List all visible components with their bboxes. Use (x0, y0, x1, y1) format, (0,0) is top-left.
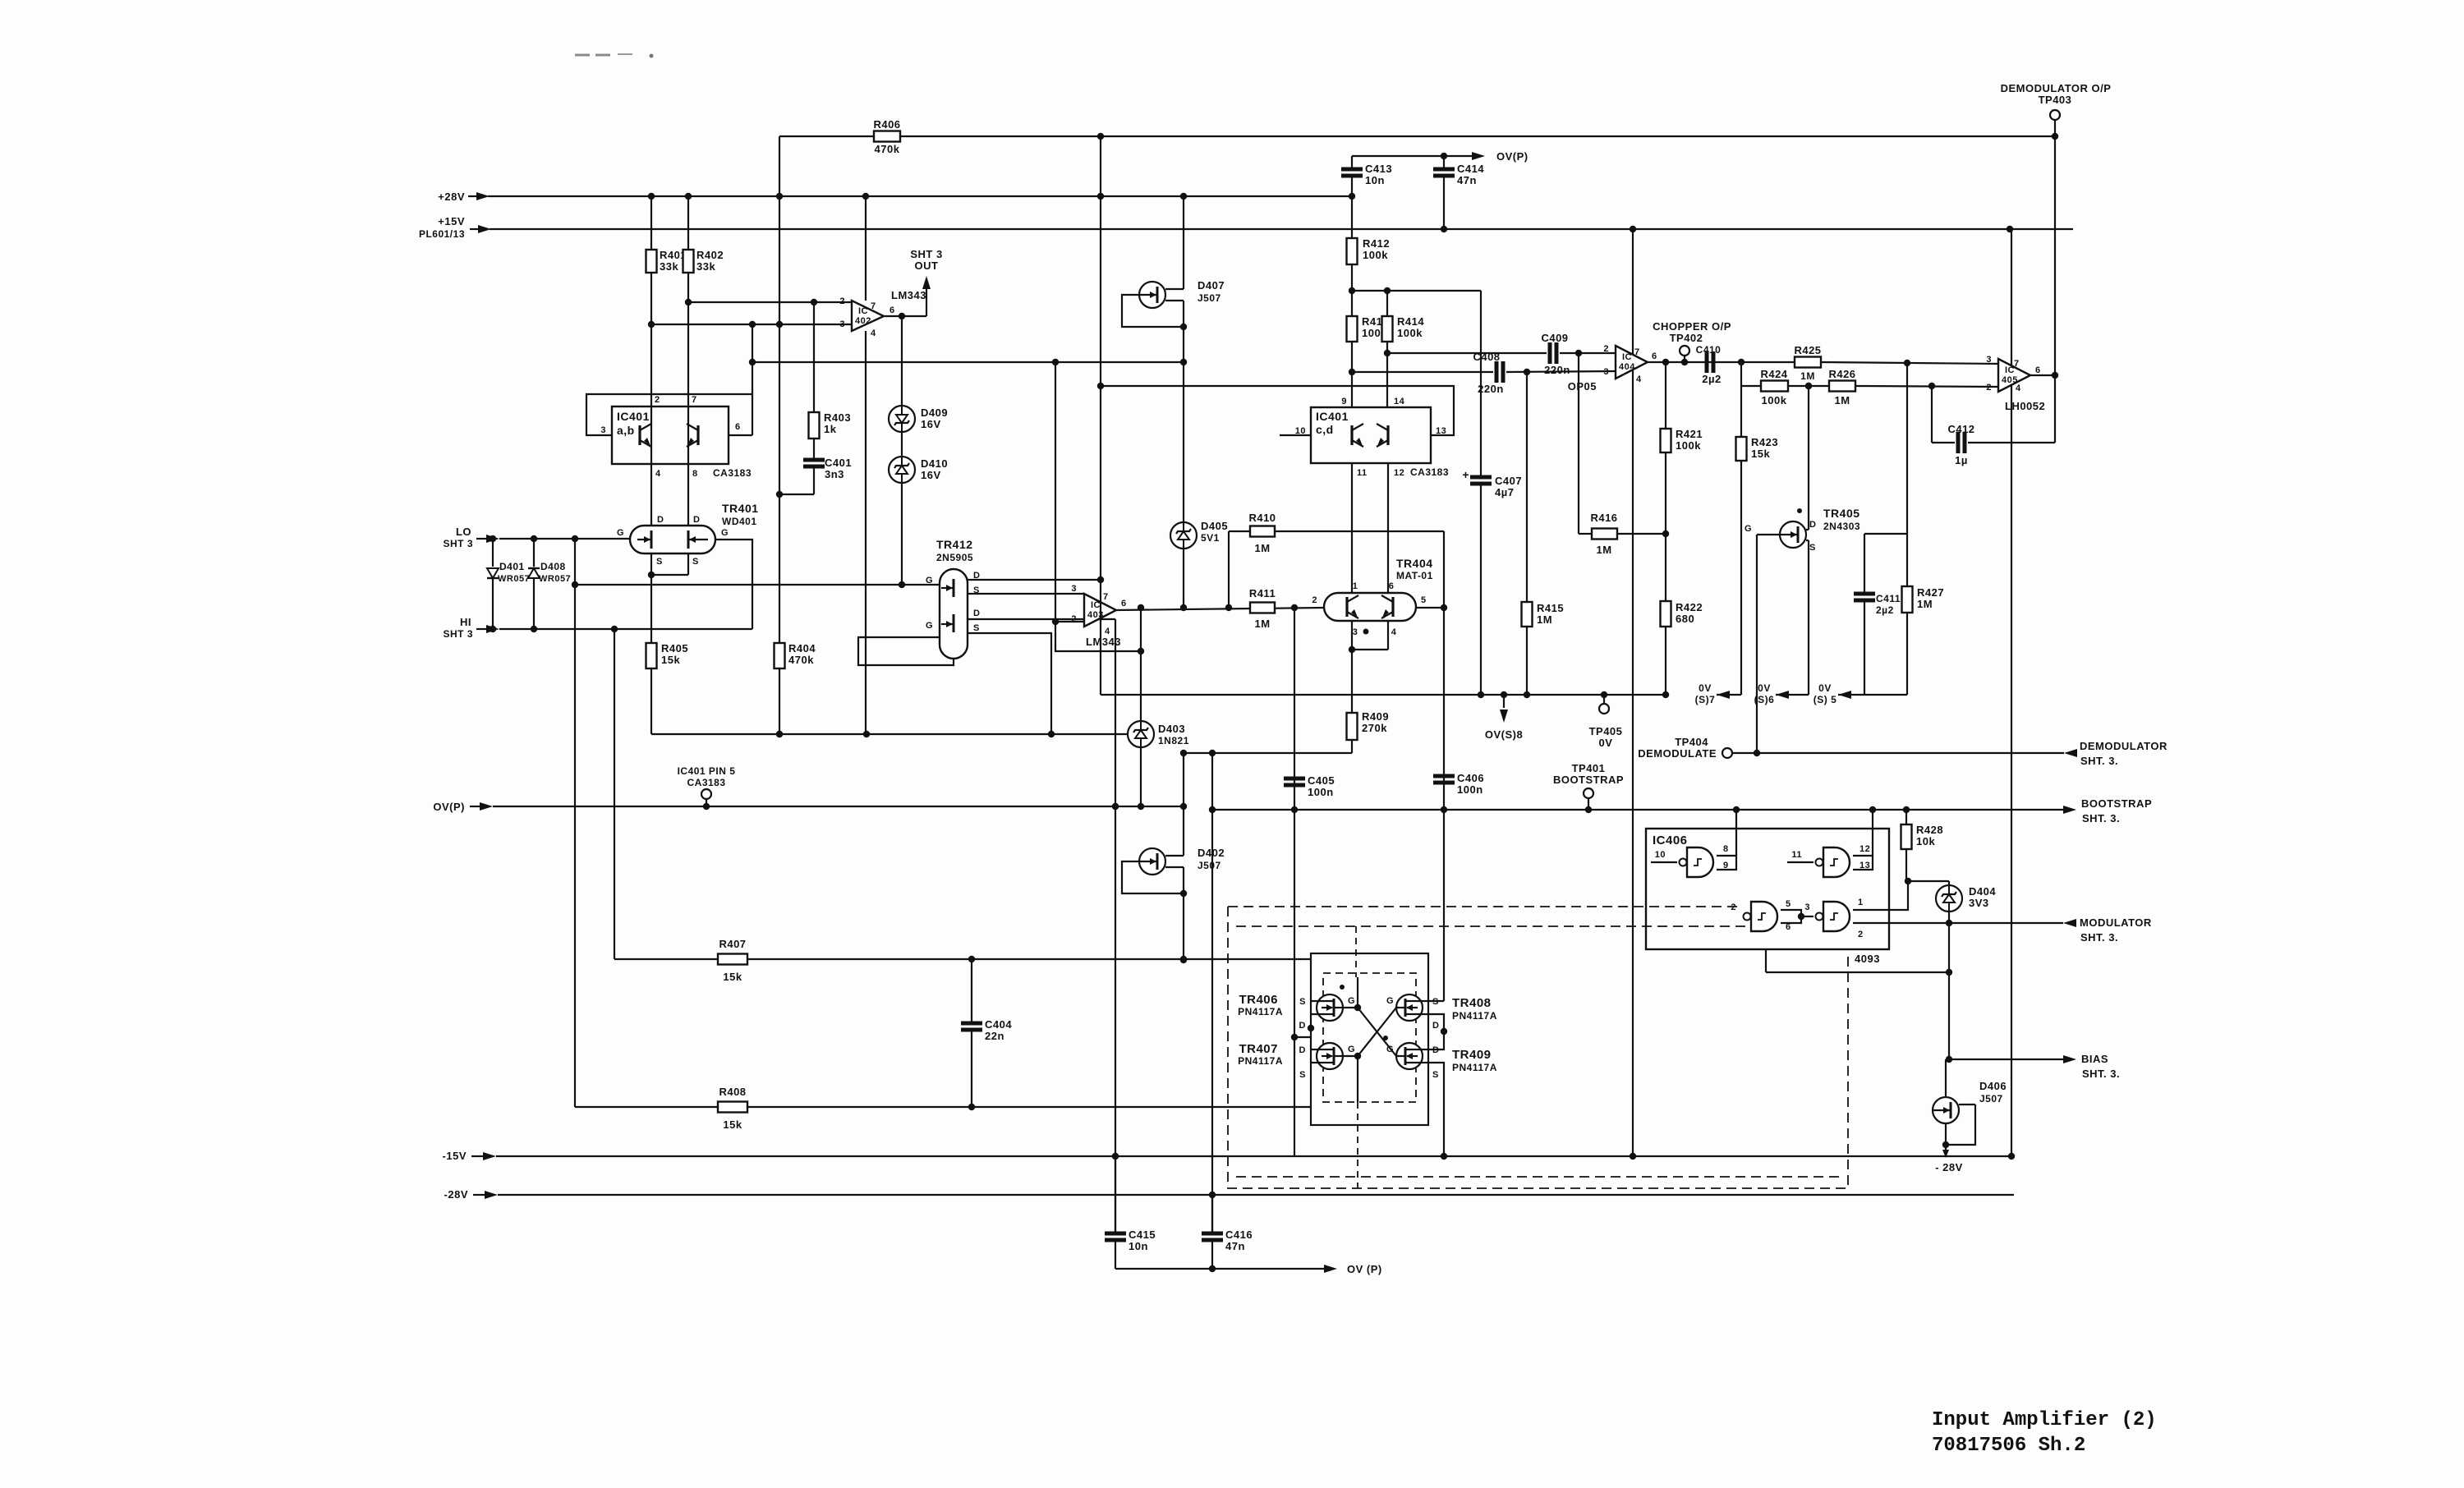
transistor pair IC401 c,d (1352, 424, 1388, 447)
wire TR405 source to 0V(S)6 (1806, 540, 1809, 695)
svg-text:G: G (1745, 524, 1752, 534)
capacitor C401 3n3 (803, 457, 852, 480)
wire R409 top (1351, 650, 1353, 713)
svg-text:CHOPPER O/P: CHOPPER O/P (1653, 320, 1731, 333)
svg-text:D405: D405 (1201, 520, 1228, 532)
svg-text:R428: R428 (1916, 824, 1943, 836)
transistor TR409 PN4117A (1383, 1036, 1497, 1080)
svg-text:0V: 0V (1818, 682, 1832, 694)
svg-text:3: 3 (1071, 584, 1077, 594)
svg-text:D: D (657, 515, 664, 525)
svg-text:15k: 15k (1751, 448, 1770, 460)
wire D406 top (1946, 1059, 1949, 1097)
resistor R412 100k (1347, 237, 1391, 264)
wire R425 left (1741, 361, 1795, 363)
wire TR412 lower drain (968, 618, 1115, 620)
package box TR406-409 (1311, 953, 1428, 1125)
svg-text:C401: C401 (825, 457, 852, 469)
resistor R413 100k (1347, 315, 1390, 342)
wire gate stubs right pair (1396, 1008, 1399, 1056)
pin labels IC401cd sides (1295, 426, 1447, 436)
svg-text:R406: R406 (873, 118, 900, 131)
svg-text:-15V: -15V (443, 1150, 467, 1162)
svg-text:G: G (1348, 1045, 1355, 1054)
wire D403 bottom (1140, 747, 1142, 806)
svg-text:R424: R424 (1760, 368, 1787, 380)
net 0V(P) terminal (433, 801, 493, 813)
wire TR408 leads (1423, 1001, 1428, 1014)
svg-text:470k: 470k (875, 143, 900, 155)
resistor R405 15k (646, 642, 689, 668)
svg-text:6: 6 (735, 422, 741, 432)
svg-text:IC401: IC401 (1316, 410, 1349, 423)
op-amp IC405 LH0052 (1986, 355, 2045, 412)
svg-text:CA3183: CA3183 (687, 777, 725, 788)
svg-text:1µ: 1µ (1955, 454, 1968, 466)
svg-text:R411: R411 (1249, 587, 1276, 599)
svg-text:SHT. 3.: SHT. 3. (2082, 812, 2120, 824)
wire D402 leads (1165, 856, 1184, 867)
wire y917 D402 to R409 (1180, 750, 1352, 756)
svg-text:PN4117A: PN4117A (1452, 1062, 1497, 1073)
svg-text:14: 14 (1394, 397, 1405, 406)
wire R404 bottom (776, 668, 783, 737)
junction +28V / C413 (1349, 193, 1355, 200)
wire TR409 source to -15V (1428, 1063, 1447, 1160)
svg-text:TP405: TP405 (1589, 725, 1623, 737)
wire R402 top (685, 193, 692, 250)
shield dashed box inner (1323, 973, 1416, 1102)
wire C415 top (1115, 1156, 1116, 1232)
wire TR407 leads (1311, 1049, 1317, 1063)
resistor R424 100k (1760, 368, 1788, 406)
svg-text:1M: 1M (1800, 370, 1815, 382)
svg-text:1M: 1M (1834, 394, 1850, 406)
svg-text:+: + (1462, 468, 1469, 481)
diode D402 J507 (1139, 847, 1225, 875)
wire gate feed lower (1357, 1056, 1358, 1188)
transistor TR412 upper half (926, 571, 981, 597)
wire long vertical x1476 (1209, 753, 1216, 1232)
svg-text:D407: D407 (1198, 279, 1225, 292)
shield dashed line lower (1236, 925, 1745, 927)
svg-text:R421: R421 (1676, 428, 1703, 440)
svg-text:SHT 3: SHT 3 (443, 628, 473, 640)
svg-text:11: 11 (1357, 468, 1368, 478)
svg-text:IC401 PIN 5: IC401 PIN 5 (678, 765, 736, 777)
wire R408 line left (575, 1106, 718, 1108)
svg-text:R405: R405 (661, 642, 688, 654)
svg-text:SHT 3: SHT 3 (910, 248, 942, 260)
svg-text:J507: J507 (1198, 860, 1221, 871)
wire R403 top (813, 302, 815, 412)
wire R414 top (1384, 287, 1391, 316)
svg-text:WD401: WD401 (722, 516, 757, 527)
resistor R426 1M (1828, 368, 1855, 406)
svg-text:70817506 Sh.2: 70817506 Sh.2 (1932, 1435, 2085, 1457)
wire R421 top (1662, 359, 1669, 429)
gate IC406a NAND (1651, 847, 1713, 877)
svg-text:220n: 220n (1544, 364, 1570, 376)
capacitor C411 2u2 (1854, 593, 1901, 616)
svg-text:D: D (1432, 1021, 1439, 1031)
resistor R401 33k (646, 249, 687, 273)
svg-text:Input Amplifier (2): Input Amplifier (2) (1932, 1409, 2157, 1431)
svg-text:R426: R426 (1828, 368, 1855, 380)
wire D404 top (1948, 881, 1950, 885)
svg-text:R416: R416 (1590, 512, 1617, 524)
capacitor C405 100n (1284, 774, 1335, 798)
transistor TR404 MAT-01 package (1324, 557, 1433, 621)
svg-text:33k: 33k (660, 260, 678, 273)
wire C407 top (1480, 291, 1482, 475)
wire R405 bottom (650, 668, 652, 734)
svg-text:S: S (1299, 997, 1306, 1007)
wire D406 gate loop (1942, 1105, 1975, 1148)
wire IC401cd pin13 loop (1101, 386, 1454, 435)
wire TR412 upper source to IC403 pin3 (968, 593, 1084, 595)
svg-text:G: G (1348, 996, 1355, 1006)
title block (1932, 1409, 2157, 1457)
svg-text:100k: 100k (1397, 327, 1423, 339)
svg-text:D: D (1809, 520, 1816, 530)
svg-text:IC: IC (1091, 600, 1101, 610)
op-amp IC403 LM343 (1071, 584, 1126, 648)
svg-text:OUT: OUT (915, 259, 939, 272)
capacitor C408 220n (1473, 351, 1503, 395)
svg-text:3V3: 3V3 (1969, 897, 1989, 909)
svg-text:BIAS: BIAS (2081, 1053, 2108, 1065)
svg-text:3: 3 (1804, 902, 1810, 912)
svg-text:TR404: TR404 (1396, 557, 1433, 570)
svg-text:TR406: TR406 (1239, 993, 1278, 1007)
svg-text:TR412: TR412 (936, 538, 973, 551)
label TR401 WD401 (722, 502, 759, 527)
wire D407 leads (1165, 289, 1184, 301)
svg-text:OV(P): OV(P) (1496, 150, 1529, 163)
svg-text:PL601/13: PL601/13 (419, 228, 465, 240)
net -15V terminal (443, 1150, 496, 1162)
wire C409 left (1387, 352, 1547, 354)
svg-text:6: 6 (890, 305, 895, 315)
IC IC401 c,d package box (1311, 407, 1431, 463)
wire R409 bottom (1351, 740, 1353, 753)
svg-text:+15V: +15V (438, 215, 465, 227)
wire R423 bottom to 0V(S)7 (1740, 461, 1742, 695)
resistor R410 1M (1248, 512, 1276, 554)
wire D410 bottom (899, 483, 905, 588)
wire IC401ab pin3 loop (586, 394, 752, 435)
svg-text:6: 6 (2035, 365, 2041, 375)
svg-text:1: 1 (1858, 898, 1864, 907)
svg-text:10: 10 (1655, 850, 1666, 860)
svg-text:C405: C405 (1308, 774, 1335, 787)
svg-text:D401: D401 (499, 561, 525, 572)
svg-text:2: 2 (1603, 344, 1609, 354)
resistor R411 1M (1249, 587, 1276, 630)
svg-text:R412: R412 (1363, 237, 1390, 250)
svg-text:15k: 15k (723, 971, 742, 983)
pin labels IC401ab top (655, 395, 697, 405)
capacitor C410 2u2 (1696, 344, 1722, 385)
svg-text:D: D (1299, 1045, 1306, 1055)
wire feedback column x949 (776, 136, 783, 643)
wire +15V rail (490, 228, 2073, 230)
net 0V(S)7 arrow (1695, 682, 1741, 705)
wire to IC405 pin3 (1821, 360, 1998, 366)
svg-text:R410: R410 (1248, 512, 1276, 524)
wire R407 line right (747, 956, 1311, 962)
svg-text:4093: 4093 (1855, 953, 1880, 965)
wire R423 top (1740, 386, 1742, 437)
svg-text:D410: D410 (921, 457, 948, 470)
capacitor C416 47n (1202, 1229, 1253, 1252)
svg-text:R423: R423 (1751, 436, 1778, 448)
svg-text:TR407: TR407 (1239, 1042, 1278, 1056)
wire R428 top (1905, 810, 1907, 824)
wire R424 left (1741, 385, 1761, 387)
svg-text:(S) 5: (S) 5 (1814, 694, 1837, 705)
gate IC406d NAND (1816, 902, 1850, 931)
svg-text:2: 2 (1312, 595, 1317, 605)
wire C408 left (1352, 371, 1493, 373)
transistor TR408 PN4117A (1386, 994, 1497, 1031)
svg-text:R404: R404 (788, 642, 816, 654)
wire IC406d pin1 (1853, 878, 1911, 910)
svg-text:TR408: TR408 (1452, 996, 1492, 1010)
resistor R408 15k (718, 1086, 747, 1131)
wire IC401cd pin10 (1280, 434, 1311, 436)
svg-text:G: G (926, 621, 933, 631)
gate IC406b NAND (1787, 847, 1850, 877)
svg-text:R403: R403 (824, 411, 851, 424)
svg-text:7: 7 (692, 395, 697, 405)
testpoint TP403 DEMODULATOR O/P (2001, 82, 2112, 120)
svg-text:IC406: IC406 (1653, 834, 1688, 847)
svg-text:0V: 0V (1599, 737, 1613, 749)
svg-text:R422: R422 (1676, 601, 1703, 613)
svg-text:IC: IC (858, 306, 868, 316)
svg-text:a,b: a,b (617, 424, 635, 437)
zener D409 16V (889, 406, 948, 432)
svg-text:-28V: -28V (444, 1188, 468, 1201)
svg-text:1k: 1k (824, 423, 837, 435)
resistor R425 1M (1794, 344, 1821, 382)
wire R412 bottom (1349, 264, 1355, 316)
svg-text:4: 4 (1391, 627, 1397, 637)
svg-text:100n: 100n (1308, 786, 1334, 798)
svg-text:S: S (1809, 543, 1816, 553)
resistor R416 1M (1579, 512, 1669, 556)
wire TR412 lower gate loop (858, 637, 954, 665)
svg-text:D: D (1299, 1021, 1306, 1031)
svg-text:2: 2 (1858, 930, 1864, 939)
svg-text:CA3183: CA3183 (713, 467, 752, 479)
wire IC402 pin2 net (688, 299, 852, 305)
resistor R406 470k (873, 118, 900, 155)
svg-text:DEMODULATOR O/P: DEMODULATOR O/P (2001, 82, 2112, 94)
wire TR409 leads (1423, 1049, 1428, 1063)
svg-text:2: 2 (655, 395, 660, 405)
svg-text:PN4117A: PN4117A (1238, 1055, 1283, 1067)
wire C412 loop (1932, 386, 2055, 443)
testpoint TP402 CHOPPER O/P (1653, 320, 1731, 362)
pin labels IC401cd top (1341, 397, 1404, 406)
svg-text:7: 7 (1103, 592, 1109, 602)
wire IC403 pin2 feedback loop (1052, 362, 1144, 654)
svg-text:4: 4 (871, 328, 876, 338)
svg-text:33k: 33k (696, 260, 715, 273)
svg-text:10k: 10k (1916, 835, 1935, 847)
wire TR401 sources (648, 553, 688, 578)
wire R415 top (1526, 372, 1528, 602)
net OV(P) bottom arrow (1115, 1263, 1382, 1275)
wire C406 column upper (1443, 531, 1445, 810)
net 0V(S)5 arrow (1814, 682, 1864, 705)
wire -28V rail (498, 1192, 2014, 1198)
wire C408 to OP05 pin3 (1506, 369, 1616, 375)
op-amp IC404 OP05 (1568, 344, 1657, 393)
wire y441 line (752, 359, 1187, 365)
capacitor C407 4u7 (1462, 468, 1522, 498)
svg-text:R407: R407 (719, 938, 746, 950)
wire long vertical x1340 supply (1097, 133, 1104, 695)
resistor R428 10k (1901, 824, 1944, 849)
wire long vertical x1358 (1112, 619, 1119, 1232)
wire IC406a pins 8-9 (1717, 810, 1736, 870)
svg-text:1M: 1M (1254, 618, 1270, 630)
svg-text:47n: 47n (1225, 1240, 1245, 1252)
svg-text:D402: D402 (1198, 847, 1225, 859)
net 0V(P) top arrow (1352, 150, 1529, 163)
pin labels IC401ab bottom (655, 467, 752, 479)
wire C416 bottom (1209, 1242, 1216, 1272)
svg-text:BOOTSTRAP: BOOTSTRAP (2081, 797, 2152, 810)
wire D402 column (1180, 752, 1187, 963)
svg-text:5: 5 (1786, 899, 1791, 909)
wire TR406 leads (1308, 1001, 1317, 1031)
capacitor C404 22n (961, 1018, 1012, 1042)
wire TR412 lower source (968, 633, 1051, 734)
svg-text:9: 9 (1723, 861, 1729, 870)
wire C416 top (1211, 1195, 1213, 1232)
svg-text:7: 7 (871, 301, 876, 311)
svg-text:680: 680 (1676, 613, 1694, 625)
wire R416 left riser (1578, 353, 1579, 534)
svg-text:D404: D404 (1969, 885, 1996, 898)
net +28V input terminal (438, 191, 490, 203)
wire IC403 output y740 (1116, 604, 1324, 611)
svg-text:6: 6 (1389, 581, 1395, 591)
svg-text:S: S (656, 557, 663, 567)
svg-text:11: 11 (1791, 850, 1802, 860)
capacitor C406 100n (1433, 772, 1484, 796)
resistor R415 1M (1522, 602, 1565, 627)
shield dashed enclosure (1228, 907, 1848, 1188)
wire C405 column (1291, 604, 1298, 1156)
wire OP05 output (1648, 359, 1745, 365)
svg-text:c,d: c,d (1316, 423, 1334, 436)
zener D410 16V (889, 457, 948, 483)
svg-text:10n: 10n (1129, 1240, 1148, 1252)
svg-text:1M: 1M (1254, 542, 1270, 554)
wire R427 bottom / 0V(S)5 tie (1864, 613, 1907, 695)
svg-text:2: 2 (839, 296, 845, 306)
svg-text:SHT. 3.: SHT. 3. (2080, 755, 2118, 767)
svg-text:G: G (926, 576, 933, 586)
svg-text:4: 4 (2016, 383, 2021, 393)
svg-text:100n: 100n (1457, 783, 1483, 796)
svg-text:LO: LO (456, 526, 471, 538)
svg-text:S: S (1299, 1070, 1306, 1080)
svg-text:DEMODULATOR: DEMODULATOR (2080, 740, 2167, 752)
svg-text:R415: R415 (1537, 602, 1564, 614)
wire C405 column to TR406 drain (1294, 1036, 1311, 1038)
svg-text:1N821: 1N821 (1158, 735, 1189, 746)
svg-text:G: G (721, 528, 729, 538)
svg-text:BOOTSTRAP: BOOTSTRAP (1553, 774, 1624, 786)
svg-text:OV(S)8: OV(S)8 (1485, 728, 1523, 741)
svg-text:WR057: WR057 (498, 574, 530, 584)
transistor TR407 PN4117A (1238, 1042, 1355, 1080)
svg-text:220n: 220n (1478, 383, 1504, 395)
svg-text:D403: D403 (1158, 723, 1185, 735)
wire LO line (490, 535, 630, 542)
svg-text:LM343: LM343 (891, 289, 926, 301)
svg-text:2: 2 (1731, 902, 1736, 912)
wire +28V rail (488, 195, 1352, 197)
wire to IC405 pin2 (1855, 383, 1998, 389)
wire R401 top (648, 193, 655, 250)
svg-text:2µ2: 2µ2 (1702, 373, 1721, 385)
svg-text:DEMODULATE: DEMODULATE (1638, 747, 1717, 760)
net BIAS SHT3 (1949, 1053, 2120, 1080)
svg-text:D409: D409 (921, 406, 948, 419)
wire R422 top (1665, 534, 1666, 601)
wire TR412 top gate (575, 584, 940, 586)
svg-text:470k: 470k (788, 654, 814, 666)
svg-text:C406: C406 (1457, 772, 1484, 784)
wire TR401 right gate to HI (715, 540, 752, 629)
svg-text:10n: 10n (1365, 174, 1385, 186)
resistor R414 100k (1382, 315, 1425, 342)
wire IC402 output (884, 313, 926, 319)
wire TR404 pin1 to IC401cd pin11 (1351, 463, 1353, 593)
wire y894 to D403 (651, 731, 1128, 737)
pin labels TR404 (1312, 581, 1426, 637)
svg-text:402: 402 (855, 316, 871, 326)
wire IC401ab pin6 riser (749, 324, 756, 435)
svg-text:TP403: TP403 (2039, 94, 2072, 106)
capacitor C409 220n (1541, 332, 1570, 376)
transistor TR401 WD401 package (630, 526, 715, 553)
svg-text:9: 9 (1341, 397, 1347, 406)
resistor R421 100k (1661, 428, 1703, 452)
wire R402 bottom to TR401 drain (685, 273, 692, 526)
svg-text:TP401: TP401 (1572, 762, 1606, 774)
wire TR412 upper drain (968, 579, 1101, 581)
svg-text:5: 5 (1421, 595, 1427, 605)
svg-text:16V: 16V (921, 418, 941, 430)
svg-text:D: D (973, 609, 980, 618)
transistor TR412 lower half (926, 609, 981, 633)
resistor R402 33k (683, 249, 724, 273)
net -28V terminal (444, 1188, 498, 1201)
resistor R404 470k (775, 642, 816, 668)
svg-text:LM343: LM343 (1086, 636, 1121, 648)
wire C401 bottom (779, 468, 814, 494)
wire OP05 pin7 supply (1630, 226, 1636, 355)
